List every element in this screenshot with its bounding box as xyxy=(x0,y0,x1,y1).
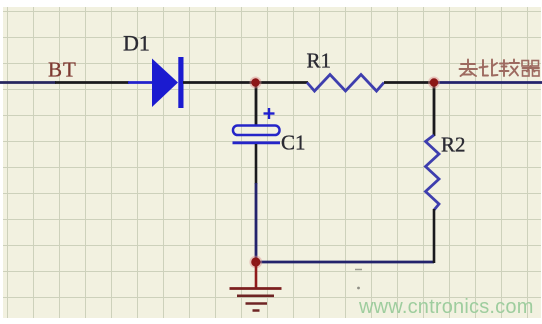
svg-text:R1: R1 xyxy=(307,49,332,73)
svg-text:BT: BT xyxy=(48,58,77,82)
svg-text:R2: R2 xyxy=(441,133,466,157)
svg-text:www.cntronics.com: www.cntronics.com xyxy=(358,296,534,318)
svg-text:D1: D1 xyxy=(123,31,150,56)
svg-text:C1: C1 xyxy=(281,131,306,155)
